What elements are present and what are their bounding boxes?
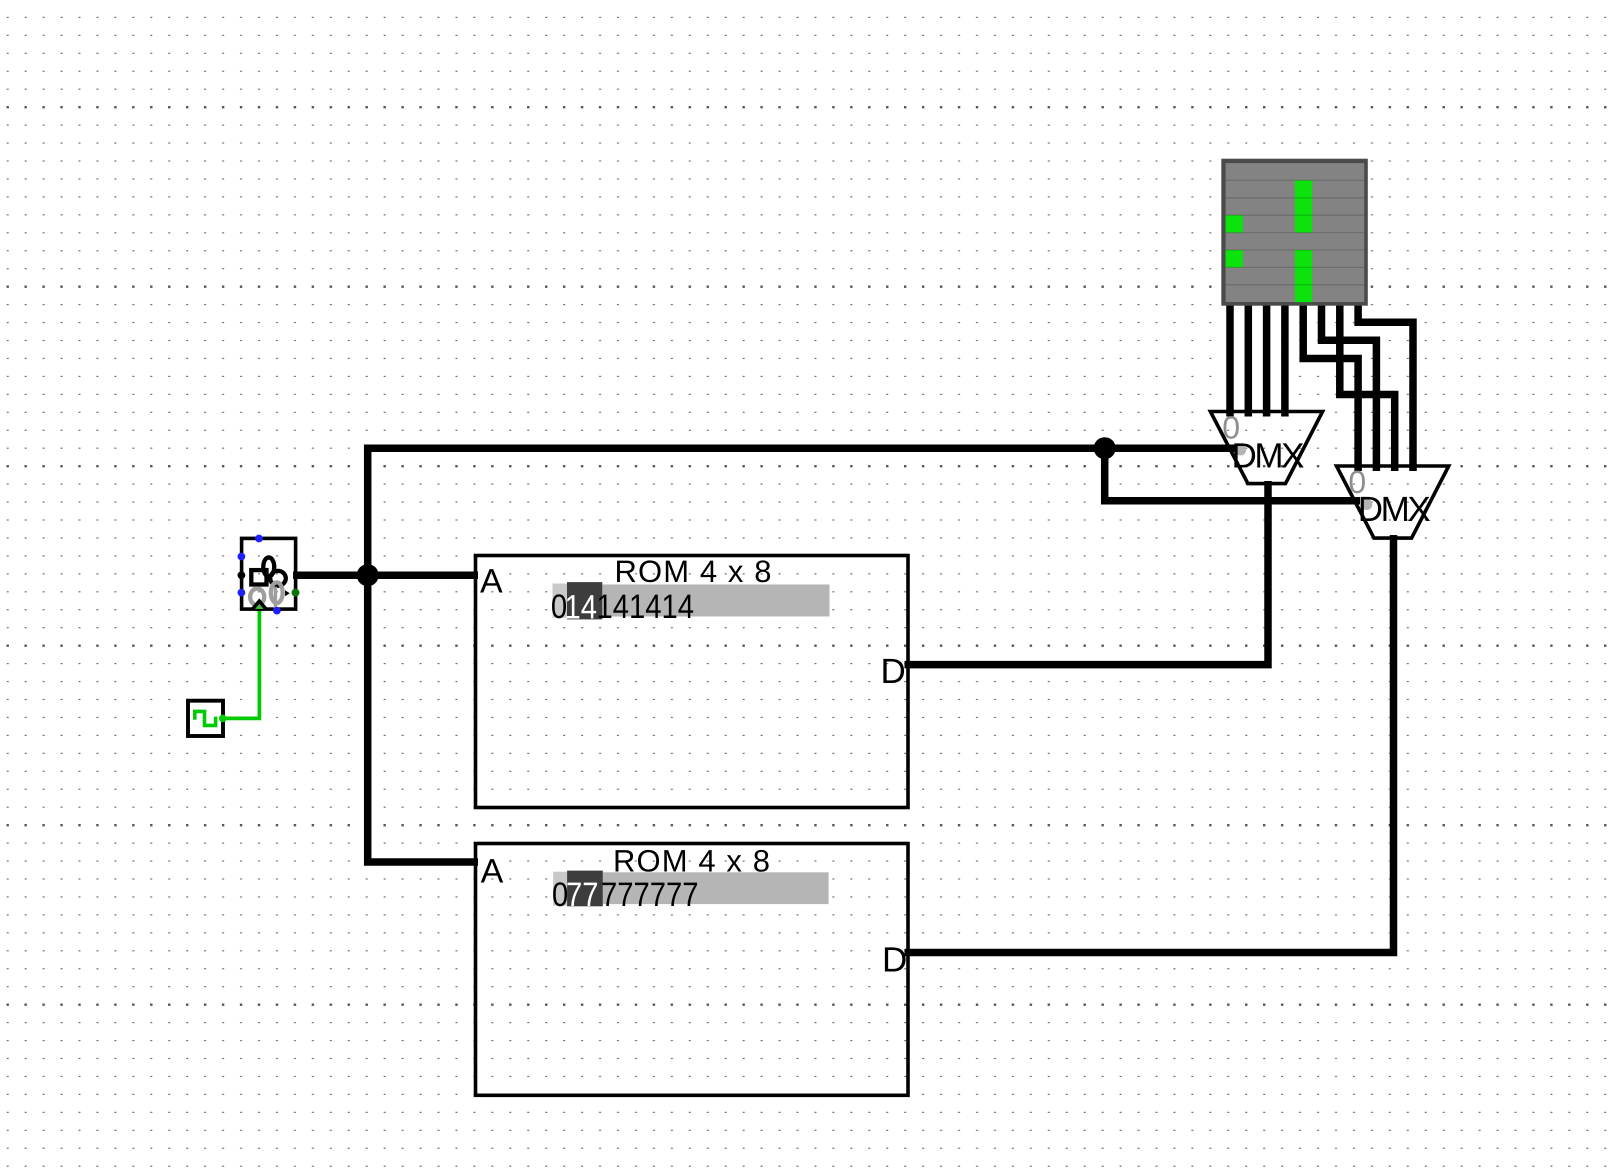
svg-text:777777: 777777 [601,876,699,914]
DMX1 select pin marker [1235,444,1246,455]
counter value display glyphs [251,570,266,584]
wire: ROM1 D output right then up to DMX1 data input [905,481,1269,665]
DMX2 select pin marker [1361,499,1372,510]
DMX1 body trapezoid [1210,412,1322,484]
matrix body [1226,163,1365,302]
wire: counter Q output bus to ROM1 A input (through junction A) [296,571,478,579]
svg-text:A: A [481,852,504,890]
node A: bus junction at counter output [357,564,379,586]
wire: junction A up and right along top to DMX1 select input [368,448,1236,575]
ROM U2: ROM 4 x 8 [476,843,909,1095]
node B: bus junction on top horizontal run [1094,437,1116,459]
matrix lit cells [1295,180,1312,232]
wire: clock output to counter clock pin (1-bit, high) [223,609,259,718]
wire: ROM2 D output right then up to DMX2 data input [905,535,1394,953]
svg-text:77: 77 [566,876,599,914]
clock CLK1 [188,701,227,736]
svg-text:ROM 4 x 8: ROM 4 x 8 [615,554,772,589]
ROM U1 contents display [553,584,568,618]
ROM U1: ROM 4 x 8 [476,554,909,808]
matrix row divider lines [1226,180,1365,284]
svg-text:D: D [882,941,907,980]
svg-text:DMX: DMX [1358,490,1431,529]
wire: matrix pin 7 staircase to DMX2 output 3 [1340,305,1395,472]
wire: junction A down then right to ROM2 A input [368,575,478,862]
counter Q output pin stub [293,572,301,579]
wire: junction B down then right to DMX2 select input [1105,448,1360,501]
LED matrix M1 (8x8) [1221,159,1368,306]
wire: matrix pin 3 to DMX1 output 3 [1263,305,1271,417]
ROM U2 contents display [553,872,567,906]
wire: matrix pin 2 to DMX1 output 2 [1245,305,1253,417]
wire: matrix pin 6 staircase to DMX2 output 2 [1322,305,1377,472]
svg-text:DMX: DMX [1232,436,1305,475]
wire: matrix pin 8 staircase to DMX2 output 4 [1358,305,1413,472]
wire: matrix pin 5 staircase to DMX2 output 1 [1303,305,1358,472]
counter clock input wedge [253,602,266,608]
svg-text:A: A [480,563,503,601]
matrix border frame [1221,159,1368,306]
svg-text:141414: 141414 [597,588,695,626]
demultiplexer DMX1 [1210,410,1322,484]
svg-text:D: D [881,652,906,691]
demultiplexer DMX2 [1337,464,1449,538]
DMX2 body trapezoid [1337,466,1449,538]
counter CTR1 [238,535,301,615]
svg-text:14: 14 [565,588,598,626]
counter port dots (floating inputs blue, reset black, carry green) [255,535,263,543]
wire: matrix pin 4 to DMX1 output 4 [1281,305,1289,417]
wire: matrix pin 1 to DMX1 output 1 [1226,305,1234,417]
